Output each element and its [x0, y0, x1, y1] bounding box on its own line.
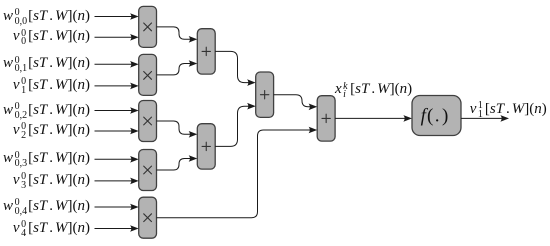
svg-text:f(.): f(.) [421, 106, 449, 127]
